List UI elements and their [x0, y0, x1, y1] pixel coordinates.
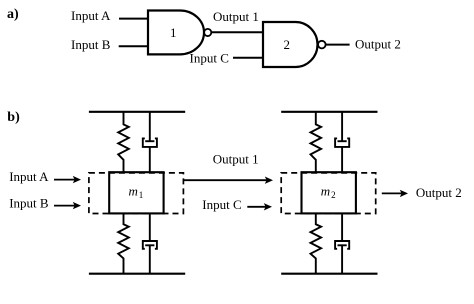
floor bar (m1): [89, 273, 185, 275]
svg-text:1: 1: [170, 25, 177, 40]
svg-text:Input B: Input B: [71, 37, 111, 52]
damper c2 top cup: [335, 138, 349, 147]
damper c1 bottom lower rod: [149, 245, 151, 273]
arrow Output 1 m1 to m2: [184, 177, 273, 184]
wire input B: [119, 45, 149, 47]
damper c1 bottom cup (inverted): [143, 241, 157, 249]
wire Output 2: [326, 44, 350, 46]
NAND gate U1 body: [148, 11, 204, 55]
gate U1 inverter bubble: [204, 29, 211, 36]
gate U2 inverter bubble: [318, 41, 326, 49]
spring k2 bottom: [311, 213, 322, 273]
arrow Output 2: [382, 190, 408, 197]
svg-text:Output 1: Output 1: [213, 9, 259, 24]
damper c2 top lower rod: [341, 147, 343, 172]
damper c1 bottom piston plate: [145, 244, 154, 246]
svg-text:Input A: Input A: [9, 169, 49, 184]
damper c2 top rod: [341, 112, 343, 141]
damper c1 top cup: [143, 138, 157, 147]
wire input A: [119, 18, 149, 20]
arrow Input B: [54, 202, 81, 209]
damper c1 top rod: [149, 112, 151, 141]
mass m2 box: [302, 172, 356, 213]
damper c2 bottom rod from mass: [341, 213, 343, 241]
svg-text:Output 1: Output 1: [213, 152, 259, 167]
svg-text:m: m: [129, 184, 138, 199]
dashed feedthrough box around m1: [89, 173, 183, 214]
damper c2 bottom piston plate: [338, 244, 347, 246]
wire input C: [233, 57, 264, 59]
svg-text:2: 2: [331, 190, 336, 200]
ceiling bar (m1): [89, 111, 185, 113]
svg-text:2: 2: [283, 37, 290, 52]
NAND gate U2 body: [263, 22, 318, 67]
floor bar (m2): [281, 273, 377, 275]
damper c1 bottom rod from mass: [149, 213, 151, 241]
damper c1 top lower rod: [149, 147, 151, 172]
svg-text:1: 1: [139, 190, 144, 200]
dashed feedthrough box around m2: [281, 173, 376, 214]
damper c2 top piston plate: [338, 140, 347, 142]
arrow Input C: [247, 203, 272, 210]
damper c2 bottom lower rod: [341, 245, 343, 273]
svg-text:a): a): [7, 7, 19, 22]
svg-text:Input C: Input C: [190, 50, 229, 65]
svg-text:b): b): [7, 110, 20, 125]
svg-text:m: m: [321, 184, 330, 199]
spring k2 top: [311, 112, 322, 172]
ceiling bar (m2): [281, 111, 377, 113]
spring k1 top: [118, 112, 129, 172]
damper c2 bottom cup (inverted): [335, 241, 349, 249]
svg-text:Output 2: Output 2: [355, 36, 401, 51]
spring k1 bottom: [118, 213, 129, 273]
svg-text:Input C: Input C: [202, 197, 241, 212]
damper c1 top piston plate: [145, 140, 154, 142]
svg-text:Input B: Input B: [9, 195, 49, 210]
arrow Input A: [54, 176, 81, 183]
svg-text:Output 2: Output 2: [416, 185, 462, 200]
mass m1 box: [109, 172, 163, 213]
wire Output 1 to gate 2: [211, 31, 264, 33]
svg-text:Input A: Input A: [71, 8, 111, 23]
